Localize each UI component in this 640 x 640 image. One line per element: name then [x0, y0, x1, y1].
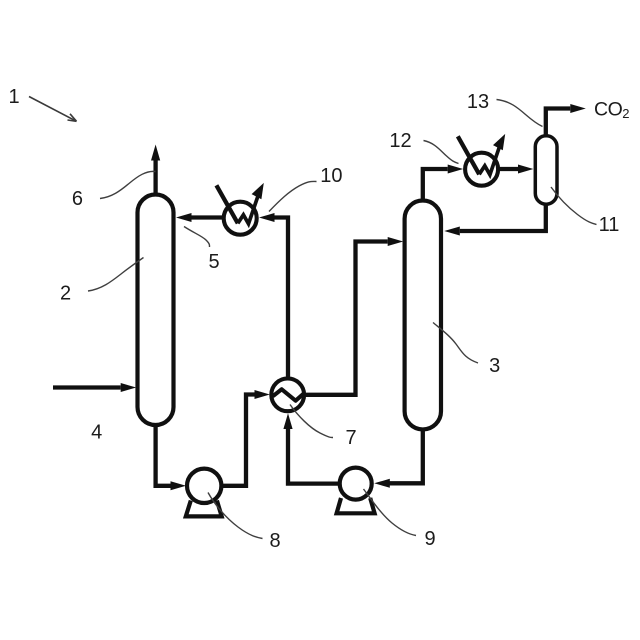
- arrowhead into HX7 left: [255, 390, 270, 399]
- svg-text:11: 11: [599, 214, 620, 236]
- cooler 10: [216, 183, 263, 235]
- svg-text:5: 5: [208, 251, 219, 273]
- wire vessel 11 bottom to column 3: [460, 202, 546, 231]
- column 3 stripper: [405, 201, 441, 430]
- wire pump 9 to HX7 bottom: [288, 429, 340, 484]
- arrowhead into cooler 12 left: [448, 165, 464, 174]
- svg-text:12: 12: [389, 130, 411, 152]
- leader label 13: [497, 100, 543, 127]
- overall arrow for label 1: [29, 97, 77, 122]
- wire column 3 bottom to pump 9: [389, 428, 422, 484]
- leader label 10: [269, 181, 317, 211]
- wire vessel 11 top to CO2 outlet: [546, 109, 571, 139]
- svg-text:6: 6: [72, 188, 83, 210]
- column 2 absorber: [138, 195, 174, 426]
- pump 8: [186, 469, 222, 517]
- leader label 11: [551, 187, 597, 225]
- svg-text:10: 10: [320, 165, 342, 187]
- arrowhead into column 3 left: [388, 237, 404, 246]
- leader label 5: [184, 227, 210, 248]
- wire column 2 bottom to pump 8: [156, 423, 171, 486]
- svg-text:2: 2: [60, 283, 71, 305]
- svg-text:9: 9: [424, 528, 435, 550]
- arrowhead into cooler 10 right: [259, 213, 275, 222]
- arrowhead into vessel 11 left: [518, 165, 533, 174]
- svg-text:13: 13: [467, 91, 489, 113]
- wire cooler 10 outlet to column 2: [192, 215, 223, 219]
- wire HX7 top up and left into cooler 10: [275, 218, 289, 380]
- leader label 7: [290, 405, 333, 438]
- leader label 3: [433, 323, 478, 364]
- wire HX7 right to column 3 left: [304, 242, 388, 395]
- wire feed line 4: [53, 385, 121, 389]
- arrowhead into pump 9 right: [374, 479, 390, 488]
- vessel 11 separator: [535, 136, 557, 204]
- svg-text:1: 1: [8, 86, 19, 108]
- arrowhead into column 3 right: [444, 227, 460, 236]
- wire vent line from column 2 top: [153, 159, 157, 200]
- leader label 9: [364, 489, 417, 536]
- leader label 8: [208, 493, 263, 539]
- svg-text:8: 8: [269, 530, 280, 552]
- arrowhead feed into column 2 left: [121, 383, 137, 392]
- arrowhead into column 2 right: [176, 213, 192, 222]
- cooler 12: [458, 134, 505, 186]
- svg-text:4: 4: [91, 422, 102, 444]
- wire pump 8 to HX7 left: [221, 395, 255, 486]
- arrowhead CO2 outlet: [570, 104, 586, 113]
- arrowhead into pump 8: [171, 481, 187, 490]
- svg-text:CO2: CO2: [594, 98, 629, 121]
- pump 9: [337, 468, 375, 514]
- svg-text:3: 3: [489, 355, 500, 377]
- heat exchanger 7: [271, 378, 304, 411]
- svg-text:7: 7: [345, 427, 356, 449]
- arrowhead vent up: [151, 145, 160, 161]
- leader label 6: [100, 171, 156, 198]
- wire column 3 top to cooler 12: [423, 169, 448, 204]
- arrowhead into HX7 bottom: [283, 413, 292, 429]
- leader label 2: [88, 258, 144, 292]
- wire cooler 12 to vessel 11: [500, 167, 519, 171]
- leader label 12: [424, 141, 459, 164]
